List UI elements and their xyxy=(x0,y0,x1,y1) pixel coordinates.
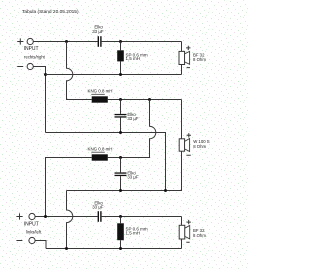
svg-text:Tabula (Stand 20.05.2015): Tabula (Stand 20.05.2015) xyxy=(22,9,79,15)
svg-text:INPUT: INPUT xyxy=(24,46,39,52)
wire left plus rail left segment xyxy=(35,216,98,218)
junction node C2 bottom xyxy=(119,131,122,134)
inductor L3 KNG 0.8mH left bass xyxy=(88,146,113,160)
junction node left plus L4 tap xyxy=(119,215,122,218)
capacitor C2 Elko 33uF right bass shunt xyxy=(115,100,139,133)
speaker W 100 S xyxy=(179,133,210,155)
svg-text:8 Ohm: 8 Ohm xyxy=(193,233,206,238)
wire woofer return xyxy=(67,151,182,190)
junction node top rail bass tap xyxy=(65,40,68,43)
svg-text:KNG 0.8 mH: KNG 0.8 mH xyxy=(88,89,113,94)
wire left minus rail xyxy=(46,248,182,250)
inductor L4 SP 0.6mm 1.5mH left tweeter shunt xyxy=(117,217,148,249)
junction node ground link bottom xyxy=(65,247,68,250)
capacitor C3 Elko 33uF left bass shunt xyxy=(115,158,139,191)
input terminal - right xyxy=(17,63,33,69)
speaker BF 32 right xyxy=(179,46,206,68)
svg-text:rechts/right: rechts/right xyxy=(24,55,46,60)
wire right tweeter minus rail xyxy=(46,74,182,76)
wire top rail left segment xyxy=(33,41,97,43)
input terminal + right xyxy=(17,38,33,44)
input terminal - left xyxy=(16,237,35,243)
svg-text:33 µF: 33 µF xyxy=(127,116,138,121)
speaker BF 32 left xyxy=(179,220,206,242)
junction node L1 bottom xyxy=(119,73,122,76)
svg-text:1,5 mH: 1,5 mH xyxy=(126,56,141,61)
inductor L1 SP 0.6mm 1.5mH right tweeter shunt xyxy=(117,42,148,75)
wire left bass link with hop xyxy=(108,100,156,158)
junction node left bass C3 tap xyxy=(119,156,122,159)
capacitor C4 Elko 33uF left tweeter xyxy=(92,201,104,222)
wire left plus rail right segment xyxy=(102,216,182,218)
wire right minus rail 2 xyxy=(46,133,166,191)
wire speaker feed top xyxy=(181,42,183,52)
junction node right bass C2 tap xyxy=(119,98,122,101)
svg-text:33 µF: 33 µF xyxy=(92,205,104,210)
junction node L4 bottom xyxy=(119,247,122,250)
wire left bass rail xyxy=(46,158,92,217)
wire top rail right segment xyxy=(102,41,182,43)
junction node C3 bottom xyxy=(119,189,122,192)
title xyxy=(22,9,79,15)
wire speaker return top xyxy=(181,65,183,75)
junction node right minus branch xyxy=(44,73,47,76)
junction node top rail L1 tap xyxy=(119,40,122,43)
svg-text:KNG 0.8 mH: KNG 0.8 mH xyxy=(88,146,113,151)
wire right bass rail xyxy=(108,99,182,101)
svg-text:1,5 mH: 1,5 mH xyxy=(126,230,141,235)
svg-text:INPUT: INPUT xyxy=(24,221,39,227)
svg-text:33 µF: 33 µF xyxy=(127,175,138,180)
junction node right bass link tap xyxy=(148,98,151,101)
wire - input left xyxy=(35,241,46,249)
junction node woofer return link xyxy=(164,189,167,192)
wire ground link left with hop xyxy=(67,191,73,249)
svg-text:8 Ohm: 8 Ohm xyxy=(193,57,206,62)
svg-text:33 µF: 33 µF xyxy=(92,29,104,34)
wire - input right xyxy=(33,67,45,133)
inductor L2 KNG 0.8mH right bass xyxy=(88,89,113,103)
capacitor C1 Elko 33uF right tweeter xyxy=(92,24,104,47)
input label left xyxy=(24,221,42,234)
input label right xyxy=(24,46,46,60)
svg-text:8 Ohm: 8 Ohm xyxy=(193,144,206,149)
wire woofer feed xyxy=(181,100,183,139)
input terminal + left xyxy=(16,213,35,219)
wire bass feed right with hop xyxy=(67,42,92,100)
wire speaker return bottom xyxy=(181,239,183,249)
wire speaker feed bottom xyxy=(181,217,183,226)
junction node left plus bass tap xyxy=(44,215,47,218)
svg-text:links/left: links/left xyxy=(26,229,42,234)
